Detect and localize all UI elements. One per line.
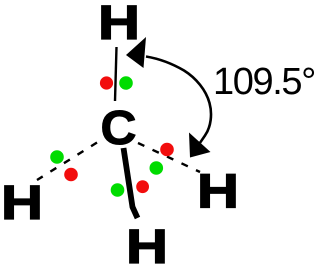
svg-text:C: C <box>101 102 137 155</box>
bond C-H right (dashed line) <box>138 143 200 172</box>
electron dot red (top bond, left) <box>100 76 113 89</box>
arrowhead top (pointing left at top bond) <box>126 37 146 68</box>
svg-text:H: H <box>126 221 168 274</box>
electron dot green (bottom bond, left) <box>111 183 125 197</box>
electron dot green (top bond, right) <box>119 76 133 90</box>
angle arc 109.5 degrees <box>146 57 211 143</box>
svg-text:H: H <box>1 177 43 230</box>
arrowhead bottom (pointing down-left at right bond) <box>189 133 211 158</box>
svg-text:H: H <box>197 166 239 219</box>
electron dot red (bottom bond, right) <box>136 180 149 193</box>
svg-text:H: H <box>98 0 140 50</box>
electron dot green (left bond, upper) <box>50 150 64 164</box>
electron dot green (right bond, lower) <box>150 161 164 175</box>
bond C-H top (solid line) <box>115 47 117 101</box>
svg-text:109.5°: 109.5° <box>213 61 315 103</box>
bond C-H bottom (thick solid line) <box>124 148 138 218</box>
bond C-H left (dashed line) <box>37 143 97 181</box>
electron dot red (right bond, upper) <box>160 143 174 157</box>
electron dot red (left bond, lower) <box>64 168 78 182</box>
